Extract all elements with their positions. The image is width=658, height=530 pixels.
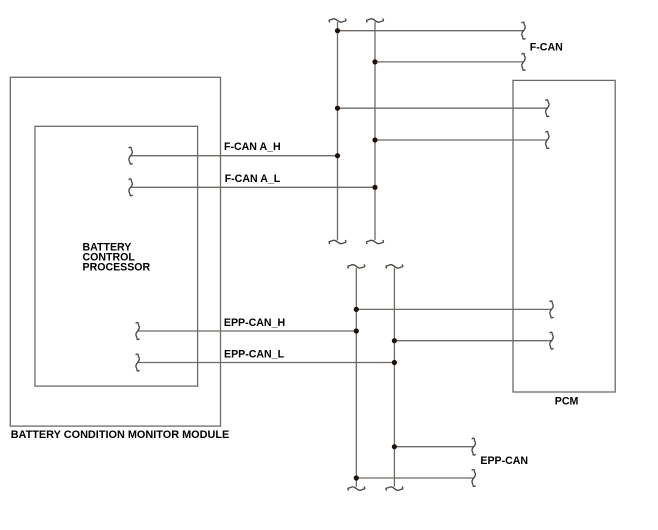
break EPP-CAN_L start bbox=[136, 354, 139, 371]
break F-CAN high PCM end bbox=[546, 100, 549, 117]
wire F-CAN bus vertical 2 bbox=[374, 22, 376, 240]
break EPP-CAN low PCM end bbox=[550, 332, 553, 349]
break F-CAN low right end bbox=[522, 53, 525, 70]
svg-text:F-CAN: F-CAN bbox=[530, 41, 563, 53]
wire EPP-CAN high into PCM bbox=[356, 308, 551, 310]
junction EPP-CAN v2 PCM bbox=[392, 338, 397, 343]
break F-CAN A_H start bbox=[129, 147, 132, 164]
junction F-CAN A_H bbox=[335, 153, 340, 158]
wire F-CAN A_H bbox=[131, 155, 338, 157]
break EPP-CAN_H start bbox=[136, 323, 139, 340]
label BATTERY CONTROL PROCESSOR bbox=[83, 242, 151, 274]
break F-CAN low PCM end bbox=[546, 132, 549, 149]
wire EPP-CAN_L bbox=[138, 362, 395, 364]
svg-text:PROCESSOR: PROCESSOR bbox=[83, 262, 151, 274]
svg-text:PCM: PCM bbox=[555, 396, 579, 408]
junction F-CAN v2 top bbox=[372, 59, 377, 64]
svg-text:EPP-CAN: EPP-CAN bbox=[480, 455, 528, 467]
svg-text:BATTERY CONDITION MONITOR MODU: BATTERY CONDITION MONITOR MODULE bbox=[11, 429, 230, 441]
wire EPP-CAN low to right bbox=[356, 477, 473, 479]
break EPP-CAN high PCM end bbox=[550, 301, 553, 318]
break F-CAN v2 bottom bbox=[367, 240, 384, 243]
break EPP-CAN low right end bbox=[472, 470, 475, 487]
junction F-CAN v2 PCM bbox=[372, 137, 377, 142]
break F-CAN v1 top bbox=[329, 19, 346, 22]
battery control processor box bbox=[35, 126, 198, 386]
junction EPP-CAN v2 bottom bbox=[392, 444, 397, 449]
svg-text:EPP-CAN_H: EPP-CAN_H bbox=[224, 317, 285, 329]
wire EPP-CAN bus vertical 1 bbox=[355, 268, 357, 487]
break EPP-CAN high right end bbox=[472, 438, 475, 455]
break F-CAN A_L start bbox=[129, 179, 132, 196]
junction F-CAN v1 top bbox=[335, 28, 340, 33]
junction EPP-CAN_L bbox=[392, 360, 397, 365]
wire F-CAN low into PCM bbox=[375, 139, 547, 141]
junction EPP-CAN v1 PCM bbox=[354, 307, 359, 312]
wire F-CAN high into PCM bbox=[338, 107, 548, 109]
break EPP-CAN v2 top bbox=[386, 265, 403, 268]
wire F-CAN A_L bbox=[131, 186, 375, 188]
break EPP-CAN v2 bottom bbox=[386, 487, 403, 490]
junction F-CAN A_L bbox=[372, 185, 377, 190]
wire F-CAN bus vertical 1 bbox=[337, 22, 339, 240]
battery condition monitor module box bbox=[10, 77, 220, 426]
break F-CAN high right end bbox=[522, 22, 525, 39]
wire EPP-CAN high to right bbox=[394, 446, 473, 448]
break F-CAN v1 bottom bbox=[329, 240, 346, 243]
wire F-CAN high to right bbox=[338, 30, 524, 32]
junction EPP-CAN v1 bottom bbox=[354, 475, 359, 480]
junction EPP-CAN_H bbox=[354, 328, 359, 333]
break EPP-CAN v1 bottom bbox=[348, 487, 365, 490]
break F-CAN v2 top bbox=[367, 19, 384, 22]
svg-text:F-CAN A_H: F-CAN A_H bbox=[224, 141, 281, 153]
wire EPP-CAN low into PCM bbox=[394, 340, 551, 342]
break EPP-CAN v1 top bbox=[348, 265, 365, 268]
PCM box U2 bbox=[513, 80, 615, 392]
wire EPP-CAN_H bbox=[138, 330, 357, 332]
svg-text:F-CAN A_L: F-CAN A_L bbox=[225, 173, 281, 185]
svg-text:EPP-CAN_L: EPP-CAN_L bbox=[224, 349, 285, 361]
wire EPP-CAN bus vertical 2 bbox=[393, 268, 395, 487]
junction F-CAN v1 PCM bbox=[335, 106, 340, 111]
wire F-CAN low to right bbox=[375, 61, 524, 63]
